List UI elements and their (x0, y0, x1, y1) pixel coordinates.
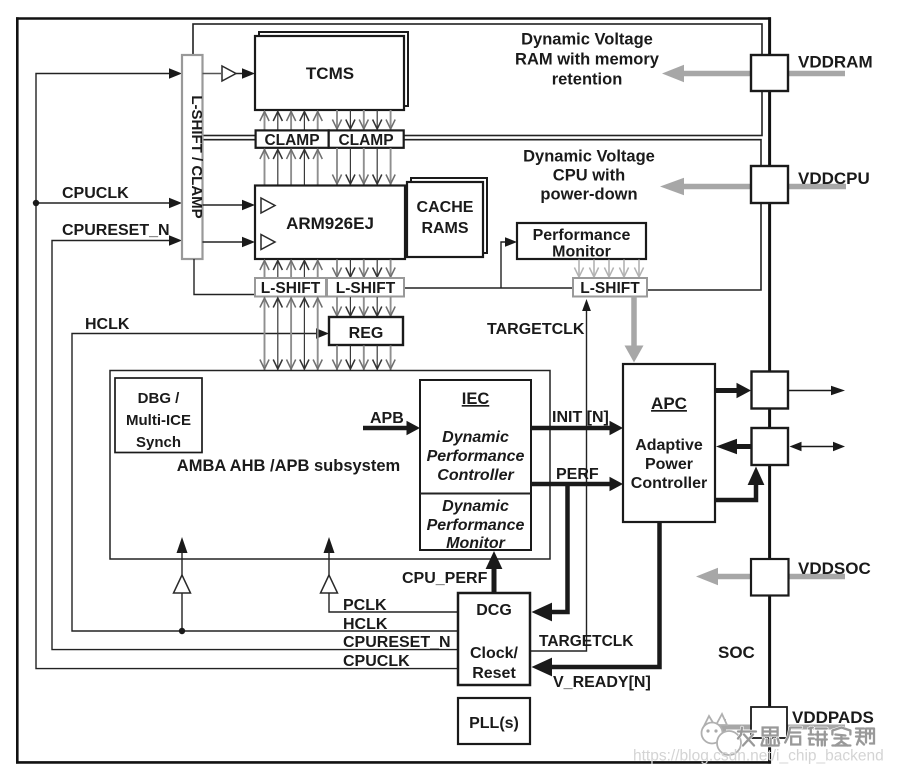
TCMS block (255, 36, 404, 110)
svg-text:IEC: IEC (462, 390, 490, 408)
arrow into TCMS (242, 68, 255, 79)
gray power bus L-SHIFT to APC (631, 297, 637, 349)
bus into CLAMP from ARM side (up arrows) (260, 149, 322, 185)
bus into ARM from L-SHIFT (up arrows) (260, 260, 322, 278)
APC Adaptive Power Controller block (623, 364, 715, 522)
wire tap to Performance Monitor (501, 242, 505, 288)
CACHE RAMS block shadow (411, 178, 487, 253)
wire level-shift triangle 1 (181, 551, 183, 631)
AMBA AHB/APB subsystem box (110, 371, 550, 560)
ARM926EJ block (255, 186, 405, 260)
svg-text:Dynamic Voltage: Dynamic Voltage (521, 31, 653, 49)
svg-text:Performance: Performance (533, 227, 631, 244)
svg-text:CLAMP: CLAMP (264, 132, 319, 149)
svg-text:AMBA AHB /APB subsystem: AMBA AHB /APB subsystem (177, 457, 400, 475)
svg-text:ARM926EJ: ARM926EJ (286, 214, 374, 233)
svg-text:TCMS: TCMS (306, 64, 354, 83)
bus L-SHIFT to AMBA (arrows both ends) (260, 298, 322, 371)
svg-text:https://blog.csdn.net/i_chip_b: https://blog.csdn.net/i_chip_backend (633, 748, 884, 765)
gray power bus VDDSOC (716, 574, 845, 579)
level shifter triangle 1 (174, 575, 191, 593)
svg-text:L-SHIFT: L-SHIFT (261, 280, 321, 297)
APB bus arrow (363, 426, 408, 431)
svg-text:TARGETCLK: TARGETCLK (487, 321, 585, 338)
svg-text:L-SHIFT / CLAMP: L-SHIFT / CLAMP (188, 95, 205, 218)
svg-text:Performance: Performance (427, 448, 525, 465)
bus REG to AMBA (down arrows) (332, 346, 395, 371)
arrow into ARM input 1 (242, 200, 255, 211)
svg-text:DCG: DCG (476, 602, 512, 619)
svg-text:REG: REG (349, 325, 384, 342)
svg-text:CPURESET_N: CPURESET_N (343, 634, 451, 651)
svg-text:CPU_PERF: CPU_PERF (402, 570, 488, 587)
bus ARM to L-SHIFT (down arrows) (332, 260, 395, 278)
pad VDDRAM (751, 55, 788, 91)
gray power bus VDDCPU (682, 184, 846, 189)
svg-text:SOC: SOC (718, 643, 755, 662)
svg-text:CPUCLK: CPUCLK (62, 185, 129, 202)
svg-text:Synch: Synch (136, 434, 181, 451)
svg-text:retention: retention (552, 71, 623, 89)
svg-text:CLAMP: CLAMP (338, 132, 393, 149)
svg-text:PCLK: PCLK (343, 597, 387, 614)
svg-text:power-down: power-down (540, 186, 637, 204)
svg-text:APC: APC (651, 394, 687, 413)
thin double arrow from pad (799, 446, 834, 448)
junction dot CPUCLK (33, 200, 39, 206)
arrow up inside AMBA (HCLK branch) (177, 537, 188, 553)
svg-text:Dynamic: Dynamic (442, 429, 509, 446)
svg-text:Adaptive: Adaptive (635, 437, 703, 454)
svg-text:CPURESET_N: CPURESET_N (62, 222, 170, 239)
DCG Clock/Reset block (458, 593, 530, 685)
CLAMP block (right) (329, 130, 404, 147)
arrow HCLK into REG (316, 328, 329, 339)
svg-text:INIT [N]: INIT [N] (552, 409, 609, 426)
bus L-SHIFT to REG (down arrows) (332, 297, 395, 317)
wire APC elbow up to pad B (715, 485, 756, 501)
L-SHIFT block (right) (327, 278, 404, 297)
junction dot HCLK (179, 628, 185, 634)
svg-text:Monitor: Monitor (446, 535, 505, 552)
pad APC out (752, 372, 789, 409)
Performance Monitor block (517, 223, 646, 259)
svg-text:CPU with: CPU with (553, 167, 625, 185)
pad VDDCPU (751, 166, 788, 203)
svg-text:VDDSOC: VDDSOC (798, 559, 871, 578)
arrow TARGETCLK into L-SHIFT (582, 299, 591, 311)
buffer triangle (TCMS clock) (222, 66, 236, 81)
gray power bus VDDRAM (682, 71, 845, 76)
L-SHIFT block (performance monitor) (573, 278, 647, 297)
wire PCLK (329, 593, 458, 612)
svg-text:VDDPADS: VDDPADS (792, 708, 874, 727)
SOC boundary line (768, 17, 771, 763)
buffer triangle ARM input 2 (261, 235, 275, 250)
svg-text:APB: APB (370, 410, 404, 427)
label Dynamic Voltage CPU with power-down (523, 148, 655, 204)
svg-text:Dynamic Voltage: Dynamic Voltage (523, 148, 655, 166)
gray power bus VDDPADS (724, 725, 845, 730)
label Dynamic Voltage RAM with memory retention (515, 31, 660, 89)
svg-text:VDDRAM: VDDRAM (798, 53, 873, 72)
level shifter bar L-SHIFT / CLAMP (182, 55, 203, 259)
bus TCMS outputs (up arrows) (260, 111, 322, 130)
wire level-shift triangle 2 upper (328, 551, 330, 575)
pad VDDSOC (751, 559, 789, 596)
wire bar to TCMS buffer (203, 73, 222, 75)
wire bar bottom stub to L-SHIFT row (194, 259, 255, 295)
svg-text:Monitor: Monitor (552, 244, 611, 261)
TCMS block shadow (259, 32, 408, 106)
svg-text:DBG /: DBG / (138, 390, 181, 407)
wire PERF IEC to APC (531, 482, 611, 487)
svg-text:TARGETCLK: TARGETCLK (539, 633, 634, 650)
thin arrow from pad (out) (789, 390, 834, 392)
wire V_READY[N] APC to DCG (552, 522, 660, 667)
Dynamic Voltage RAM region outline (193, 24, 762, 136)
buffer triangle ARM input 1 (261, 198, 275, 213)
svg-text:Multi-ICE: Multi-ICE (126, 412, 191, 429)
wire HCLK net (72, 334, 458, 632)
svg-text:Clock/: Clock/ (470, 645, 519, 662)
pad VDDPADS (751, 707, 787, 738)
svg-text:CACHE: CACHE (417, 199, 474, 216)
svg-text:RAMS: RAMS (421, 220, 468, 237)
bus into CLAMP (down arrows) (332, 110, 395, 130)
svg-text:Controller: Controller (437, 467, 514, 484)
pad APC in/out (752, 428, 789, 465)
bus Performance Monitor to L-SHIFT (gray down arrows) (574, 260, 643, 278)
wire CPUCLK branch into shifter (36, 202, 177, 204)
CLAMP block (left) (256, 130, 329, 147)
arrow CPUCLK into L-SHIFT/CLAMP (169, 198, 182, 209)
PLL block (458, 698, 530, 744)
level shifter triangle 2 (321, 575, 338, 593)
wire CPURESET_N net (52, 241, 458, 650)
L-SHIFT block (left) (255, 278, 326, 297)
svg-text:Controller: Controller (631, 475, 707, 492)
svg-text:VDDCPU: VDDCPU (798, 169, 870, 188)
wire bar to ARM input 2 (203, 241, 247, 243)
arrow CPURESET_N into L-SHIFT/CLAMP (169, 235, 182, 246)
arrow into L-SHIFT/CLAMP top (169, 68, 182, 79)
wire CPU_PERF DCG to monitor (492, 567, 497, 593)
svg-text:Power: Power (645, 456, 693, 473)
wire APC to pad (thick) (715, 388, 738, 393)
DBG Multi-ICE Synch block (115, 378, 202, 453)
svg-text:CPUCLK: CPUCLK (343, 653, 410, 670)
Dynamic Voltage CPU region outline (193, 140, 761, 290)
watermark text blocks (738, 728, 874, 746)
wire TARGETCLK to DCG (531, 311, 587, 651)
wire TARGETCLK thick to DCG (552, 484, 568, 612)
wire bar to ARM input 1 (203, 204, 247, 206)
svg-text:Reset: Reset (472, 665, 516, 682)
svg-text:HCLK: HCLK (343, 616, 388, 633)
svg-text:PERF: PERF (556, 466, 599, 483)
wire CPU-region to PM L-SHIFT (404, 287, 573, 289)
svg-text:HCLK: HCLK (85, 316, 130, 333)
wire CPUCLK net (left loop) (36, 74, 458, 669)
svg-text:RAM with memory: RAM with memory (515, 51, 660, 69)
arrow up inside AMBA (PCLK branch) (324, 537, 335, 553)
svg-text:L-SHIFT: L-SHIFT (580, 280, 640, 297)
svg-text:L-SHIFT: L-SHIFT (336, 280, 396, 297)
svg-text:Performance: Performance (427, 517, 525, 534)
REG block (329, 317, 403, 345)
watermark logo (702, 714, 742, 755)
wire pad to APC (thick) (737, 444, 752, 449)
svg-text:V_READY[N]: V_READY[N] (553, 674, 651, 691)
IEC / Dynamic Performance Controller block (420, 380, 531, 550)
bus CLAMP to ARM (down arrows) (332, 148, 395, 185)
wire buffer to TCMS (236, 73, 246, 75)
svg-text:Dynamic: Dynamic (442, 498, 509, 515)
CACHE RAMS block (407, 182, 483, 257)
arrow into Performance Monitor (505, 237, 517, 247)
arrow into ARM input 2 (242, 237, 255, 248)
wire INIT[N] IEC to APC (531, 426, 611, 431)
svg-text:PLL(s): PLL(s) (469, 715, 519, 732)
